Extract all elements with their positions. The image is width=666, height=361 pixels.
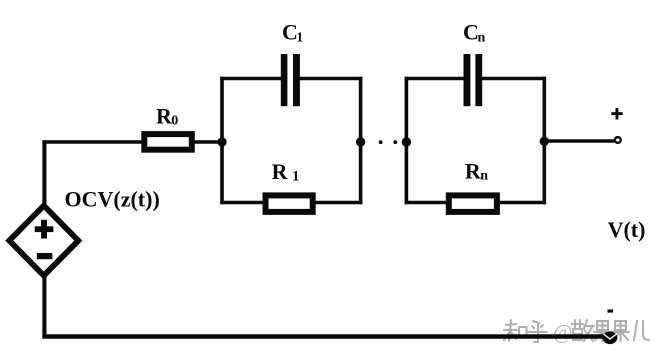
svg-text:OCV(z(t)): OCV(z(t)) bbox=[65, 187, 160, 212]
svg-text:0: 0 bbox=[171, 114, 178, 129]
svg-text:@: @ bbox=[553, 320, 572, 344]
svg-text:n: n bbox=[480, 169, 488, 184]
svg-text:R: R bbox=[272, 159, 289, 184]
svg-text:C: C bbox=[463, 20, 479, 45]
svg-text:1: 1 bbox=[292, 168, 300, 184]
svg-text:V(t): V(t) bbox=[608, 217, 646, 242]
svg-text:1: 1 bbox=[296, 30, 303, 45]
svg-text:n: n bbox=[478, 30, 486, 45]
